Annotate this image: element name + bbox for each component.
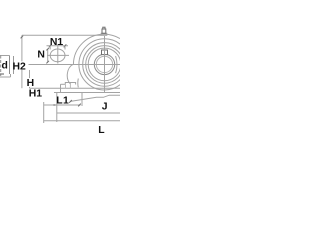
svg-text:N: N xyxy=(37,50,45,61)
svg-text:N1: N1 xyxy=(50,37,64,48)
svg-text:L1: L1 xyxy=(56,96,69,107)
svg-text:L: L xyxy=(98,125,105,136)
svg-text:H: H xyxy=(27,78,35,89)
svg-text:H1: H1 xyxy=(29,88,43,99)
svg-text:d: d xyxy=(2,61,8,72)
svg-text:J: J xyxy=(102,102,108,113)
svg-text:H2: H2 xyxy=(13,62,27,73)
